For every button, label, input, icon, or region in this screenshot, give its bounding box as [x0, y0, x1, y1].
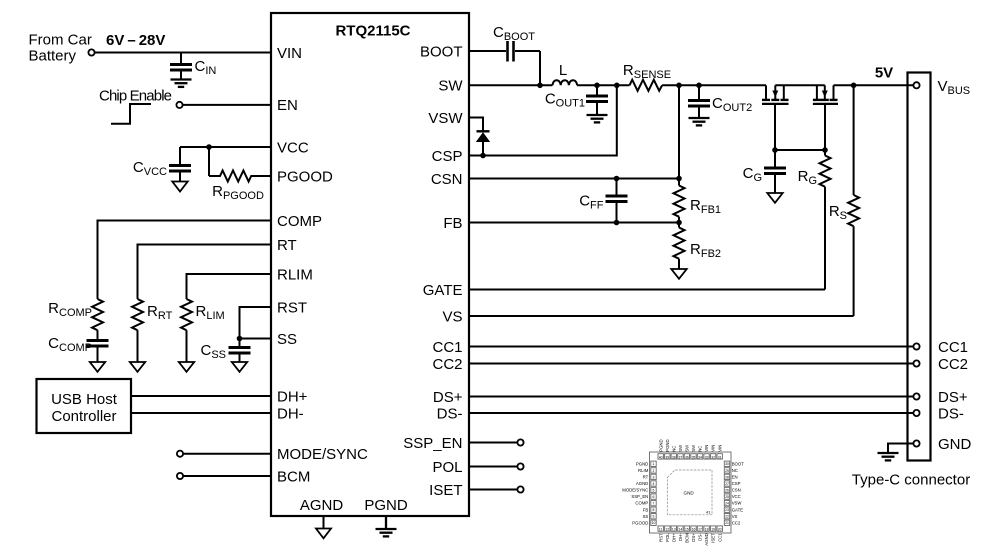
svg-text:VCC: VCC: [732, 494, 741, 499]
svg-text:CVCC: CVCC: [133, 159, 167, 178]
label RG: [798, 168, 817, 187]
svg-text:CSP: CSP: [732, 481, 741, 486]
svg-text:11: 11: [659, 528, 663, 532]
pin label FB: [443, 215, 462, 232]
svg-text:PGOOD: PGOOD: [632, 520, 648, 525]
wire MODE/SYNC: [183, 453, 271, 455]
node gate/RG junction: [822, 147, 828, 153]
node FB/RFB1/RFB2 junction: [676, 220, 682, 226]
terminal SSP_EN: [517, 439, 523, 445]
resistor RCOMP: [92, 299, 103, 330]
svg-text:SW: SW: [438, 78, 463, 95]
svg-text:6: 6: [653, 495, 655, 499]
label CCOMP: [48, 335, 92, 354]
diode D1: [476, 131, 490, 155]
svg-text:PGND: PGND: [658, 439, 663, 451]
QFN exposed pad: [667, 470, 712, 515]
QFN package outline: [650, 452, 732, 533]
svg-text:PGND: PGND: [636, 461, 648, 466]
svg-text:40: 40: [659, 456, 663, 460]
capacitor CIN: [170, 53, 192, 80]
wire GATE: [469, 289, 825, 291]
wire DH-: [131, 412, 271, 414]
svg-text:VS: VS: [442, 308, 462, 325]
capacitor CFF: [606, 179, 628, 223]
pin label CSN: [431, 171, 463, 188]
svg-text:POL: POL: [432, 459, 462, 476]
label RCOMP: [48, 300, 92, 319]
node SS/RST/CSS junction: [237, 336, 243, 342]
transistor Q2: [813, 85, 838, 150]
capacitor CVCC: [169, 147, 191, 182]
svg-text:BCM: BCM: [277, 468, 310, 485]
svg-text:16: 16: [692, 528, 696, 532]
pin label COMP: [277, 213, 322, 230]
ground (triangle) RFB2: [671, 269, 686, 279]
svg-text:25: 25: [725, 495, 729, 499]
svg-text:10: 10: [652, 521, 656, 525]
svg-text:From Car: From Car: [29, 32, 92, 49]
svg-text:31: 31: [718, 456, 722, 460]
svg-text:Controller: Controller: [51, 408, 116, 425]
terminal CC1: [913, 343, 919, 349]
svg-text:21: 21: [725, 521, 729, 525]
svg-text:GATE: GATE: [732, 507, 744, 512]
svg-text:CC1: CC1: [432, 339, 462, 356]
svg-text:RT: RT: [643, 475, 649, 480]
QFN pad pin 41: [706, 510, 711, 515]
svg-text:DS-: DS-: [938, 406, 964, 423]
ground (triangle) RRT: [130, 362, 145, 372]
svg-text:RS: RS: [829, 203, 847, 222]
QFN left pin numbers: [652, 462, 656, 525]
svg-text:GND: GND: [684, 491, 695, 496]
svg-text:41: 41: [706, 510, 711, 515]
svg-text:EN: EN: [732, 475, 738, 480]
svg-text:DH-: DH-: [678, 533, 683, 541]
QFN pad label GND: [684, 491, 695, 496]
svg-text:FB: FB: [443, 215, 462, 232]
svg-text:RG: RG: [798, 168, 817, 187]
label RFB2: [690, 241, 721, 260]
wire Q2 to VBUS: [834, 84, 914, 86]
ground (triangle) CCOMP: [90, 362, 105, 372]
svg-text:3: 3: [653, 475, 655, 479]
label: Chip Enable: [99, 88, 172, 105]
wire ISET: [469, 489, 517, 491]
label Type-C connector: [852, 472, 970, 489]
label CVCC: [133, 159, 167, 178]
svg-text:34: 34: [698, 456, 702, 460]
label connector DS+: [938, 389, 968, 406]
pin label CSP: [432, 148, 463, 165]
node VCC/RPGOOD junction: [206, 144, 212, 150]
terminal GND: [913, 440, 919, 446]
svg-text:SW: SW: [691, 444, 696, 452]
svg-text:BOOT: BOOT: [732, 461, 745, 466]
svg-text:VSW: VSW: [732, 501, 743, 506]
svg-text:20: 20: [718, 528, 722, 532]
svg-text:RRT: RRT: [147, 303, 173, 322]
svg-text:32: 32: [711, 456, 715, 460]
node CFF bottom junction: [614, 220, 620, 226]
svg-text:36: 36: [685, 456, 689, 460]
svg-text:CSS: CSS: [200, 342, 226, 361]
svg-text:RLIM: RLIM: [196, 303, 225, 322]
pin label SS: [277, 331, 297, 348]
wire DH+: [131, 395, 271, 397]
svg-text:MODE/SYNC: MODE/SYNC: [622, 488, 648, 493]
svg-text:CFF: CFF: [579, 193, 604, 212]
QFN right pin names: [732, 461, 745, 525]
terminal DS-: [913, 410, 919, 416]
svg-text:CC1: CC1: [717, 533, 722, 542]
svg-text:RFB1: RFB1: [690, 197, 721, 216]
label CBOOT: [493, 24, 535, 43]
svg-text:CSN: CSN: [732, 488, 741, 493]
pin label DS-: [437, 405, 463, 422]
svg-text:EN: EN: [277, 97, 298, 114]
svg-text:NC: NC: [698, 446, 703, 452]
pin label VCC: [277, 139, 309, 156]
QFN top pin names (rotated): [658, 439, 722, 451]
QFN-START: [622, 439, 744, 545]
QFN right pin boxes 30-21: [724, 461, 729, 525]
svg-text:AGND: AGND: [636, 481, 648, 486]
svg-text:12: 12: [665, 528, 669, 532]
wire SW to RSENSE: [577, 84, 629, 86]
svg-text:CBOOT: CBOOT: [493, 24, 535, 43]
node FB-divider riser junction: [676, 83, 682, 89]
svg-text:VSW: VSW: [428, 110, 463, 127]
svg-text:RPGOOD: RPGOOD: [212, 183, 264, 202]
wire SS: [240, 338, 272, 340]
IC U1 RTQ2115C body: [271, 13, 469, 516]
svg-text:VIN: VIN: [277, 45, 302, 62]
svg-text:VBUS: VBUS: [938, 78, 971, 97]
QFN top pin numbers: [659, 456, 722, 460]
pin label GATE: [423, 282, 463, 299]
label connector CC1: [938, 339, 968, 356]
pin label POL: [432, 459, 462, 476]
svg-text:SS: SS: [277, 331, 297, 348]
pin label VIN: [277, 45, 302, 62]
svg-text:MODE/SYNC: MODE/SYNC: [277, 446, 368, 463]
wire between Q1 and Q2: [775, 84, 825, 86]
wire DS-: [469, 412, 913, 414]
svg-text:6V – 28V: 6V – 28V: [106, 32, 165, 49]
label RS: [829, 203, 847, 222]
node COUT1 junction: [594, 83, 600, 89]
node BOOT/SW junction: [537, 83, 543, 89]
svg-text:DS+: DS+: [433, 389, 463, 406]
svg-text:CSN: CSN: [431, 171, 463, 188]
svg-text:22: 22: [725, 515, 729, 519]
svg-text:NC: NC: [671, 446, 676, 452]
node RS top junction: [851, 83, 857, 89]
svg-text:ISET: ISET: [711, 533, 716, 543]
label: From Car Battery: [29, 32, 92, 65]
label: 6V - 28V input voltage: [106, 32, 165, 49]
svg-text:13: 13: [672, 528, 676, 532]
svg-text:14: 14: [679, 528, 683, 532]
svg-text:AGND: AGND: [300, 497, 344, 514]
label RRT: [147, 303, 173, 322]
node CSP riser junction: [614, 83, 620, 89]
svg-text:BCM: BCM: [685, 533, 690, 543]
wire COMP: [98, 221, 272, 300]
pin label AGND: [300, 497, 344, 514]
resistor RFB1: [674, 179, 685, 223]
svg-text:CC2: CC2: [432, 356, 462, 373]
pin label PGOOD: [277, 168, 333, 185]
wire RLIM: [187, 274, 272, 299]
wire POL: [469, 466, 517, 468]
svg-text:NC: NC: [732, 468, 738, 473]
QFN left pin boxes 1-10: [651, 461, 656, 525]
svg-text:RFB2: RFB2: [690, 241, 721, 260]
resistor RPGOOD: [209, 147, 271, 182]
node COUT2 junction: [696, 83, 702, 89]
svg-text:28: 28: [725, 475, 729, 479]
wire CC2: [469, 363, 913, 365]
capacitor CSS: [229, 339, 251, 363]
svg-text:VS: VS: [732, 514, 738, 519]
label CG: [743, 165, 762, 184]
svg-text:RTQ2115C: RTQ2115C: [335, 23, 410, 40]
terminal ISET: [517, 486, 523, 492]
svg-text:COMP: COMP: [277, 213, 322, 230]
wire SSP_EN: [469, 442, 517, 444]
svg-text:CC1: CC1: [938, 339, 968, 356]
label USB Host Controller: [51, 391, 118, 425]
QFN top pin boxes 40-31: [658, 454, 722, 459]
wire FB-divider riser: [678, 85, 680, 178]
ground (earth) CIN: [171, 80, 192, 87]
USB host controller box: [37, 379, 132, 433]
svg-text:VIN: VIN: [717, 445, 722, 452]
pin label PGND: [364, 497, 408, 514]
pin label BCM: [277, 468, 310, 485]
label CIN: [195, 58, 217, 77]
svg-text:Battery: Battery: [29, 48, 77, 65]
resistor RFB2: [674, 223, 685, 270]
resistor RG: [820, 150, 831, 290]
svg-text:COMP: COMP: [635, 501, 648, 506]
pin label EN: [277, 97, 298, 114]
resistor RRT: [132, 299, 143, 362]
pin label RLIM: [277, 266, 313, 283]
svg-text:17: 17: [698, 528, 702, 532]
svg-text:18: 18: [705, 528, 709, 532]
svg-text:DS-: DS-: [698, 533, 703, 541]
svg-text:4: 4: [653, 482, 655, 486]
label CSS: [200, 342, 226, 361]
svg-text:FB: FB: [643, 507, 649, 512]
svg-text:26: 26: [725, 488, 729, 492]
svg-text:SSP_EN: SSP_EN: [631, 494, 648, 499]
capacitor CG: [764, 150, 786, 193]
svg-text:24: 24: [725, 502, 729, 506]
resistor RS: [848, 85, 859, 316]
terminal BCM: [177, 473, 183, 479]
QFN left pin names: [622, 461, 648, 525]
svg-text:DH-: DH-: [277, 405, 304, 422]
chip-enable step waveform symbol: [111, 104, 151, 124]
pin label DS+: [433, 389, 463, 406]
svg-text:SW: SW: [685, 444, 690, 452]
resistor RSENSE: [630, 80, 663, 91]
svg-text:RST: RST: [658, 533, 663, 542]
pin label RST: [277, 299, 307, 316]
svg-text:39: 39: [665, 456, 669, 460]
svg-text:RSENSE: RSENSE: [623, 62, 671, 81]
svg-text:Type-C connector: Type-C connector: [852, 472, 970, 489]
svg-text:38: 38: [672, 456, 676, 460]
svg-text:PGND: PGND: [665, 439, 670, 451]
terminal MODE/SYNC: [177, 451, 183, 457]
transistor Q1: [762, 85, 789, 150]
QFN right pin numbers: [725, 462, 729, 525]
pin label ISET: [429, 482, 462, 499]
wire SW: [469, 84, 553, 86]
wire RT: [138, 245, 272, 300]
svg-text:SSP_EN: SSP_EN: [403, 435, 462, 452]
svg-text:RLIM: RLIM: [638, 468, 649, 473]
svg-text:RST: RST: [277, 299, 307, 316]
wire FB: [469, 222, 679, 224]
wire BOOT: [469, 51, 540, 85]
ground (triangle) CG: [767, 193, 782, 203]
svg-text:DS+: DS+: [938, 389, 968, 406]
svg-text:SW: SW: [678, 444, 683, 452]
svg-text:29: 29: [725, 469, 729, 473]
terminal CC2: [913, 360, 919, 366]
terminal VBUS: [913, 82, 919, 88]
svg-text:CIN: CIN: [195, 58, 217, 77]
ground (triangle) CSS: [232, 362, 247, 372]
svg-text:AGND: AGND: [704, 533, 709, 545]
svg-text:DH+: DH+: [277, 388, 308, 405]
svg-text:15: 15: [685, 528, 689, 532]
svg-text:2: 2: [653, 469, 655, 473]
node CFF top junction: [614, 176, 620, 182]
pin label MODE/SYNC: [277, 446, 368, 463]
svg-text:5: 5: [653, 488, 655, 492]
ground (earth) connector GND: [878, 453, 899, 460]
pin label VS: [442, 308, 462, 325]
ground (triangle) CVCC: [172, 182, 187, 192]
svg-text:VIN: VIN: [711, 445, 716, 452]
node CSN/RFB1 junction: [676, 176, 682, 182]
svg-text:L: L: [559, 62, 567, 79]
label RTQ2115C: [335, 23, 410, 40]
svg-text:27: 27: [725, 482, 729, 486]
wire VS: [469, 315, 854, 317]
pin label DH-: [277, 405, 304, 422]
pin label CC1: [432, 339, 462, 356]
ground (earth) COUT1: [587, 115, 608, 122]
pin label SW: [438, 78, 463, 95]
capacitor COUT1: [586, 85, 608, 114]
label VBUS: [938, 78, 971, 97]
svg-text:ISET: ISET: [429, 482, 462, 499]
wire CSN: [469, 178, 679, 180]
label COUT2: [712, 95, 752, 114]
svg-text:1: 1: [653, 462, 655, 466]
svg-text:37: 37: [679, 456, 683, 460]
pin label BOOT: [420, 43, 463, 60]
ground (triangle) RLIM: [179, 362, 194, 372]
label connector CC2: [938, 356, 968, 373]
capacitor CBOOT: [508, 41, 514, 62]
svg-text:RLIM: RLIM: [277, 266, 313, 283]
wire CC1: [469, 346, 913, 348]
label connector DS-: [938, 406, 964, 423]
capacitor CCOMP: [87, 330, 109, 362]
svg-text:CSP: CSP: [432, 148, 463, 165]
terminal: battery input: [88, 49, 94, 55]
svg-text:9: 9: [653, 515, 655, 519]
ground (earth) PGND: [376, 516, 397, 536]
svg-text:DS+: DS+: [691, 533, 696, 542]
wire VSW: [469, 118, 483, 132]
label 5V: [875, 65, 893, 82]
label CFF: [579, 193, 604, 212]
svg-text:COUT2: COUT2: [712, 95, 752, 114]
wire VCC: [180, 146, 271, 148]
svg-text:30: 30: [725, 462, 729, 466]
svg-text:CCOMP: CCOMP: [48, 335, 92, 354]
svg-text:CC2: CC2: [938, 356, 968, 373]
wire EN: [183, 104, 271, 106]
wire GND: [888, 444, 913, 453]
svg-text:VIN: VIN: [704, 445, 709, 452]
svg-text:19: 19: [711, 528, 715, 532]
svg-text:8: 8: [653, 508, 655, 512]
svg-text:DH+: DH+: [671, 533, 676, 542]
pin label VSW: [428, 110, 463, 127]
svg-text:CC2: CC2: [732, 520, 741, 525]
wire DS+: [469, 396, 913, 398]
svg-text:RCOMP: RCOMP: [48, 300, 92, 319]
wire RSENSE to Q1: [662, 84, 766, 86]
pin label CC2: [432, 356, 462, 373]
svg-text:COUT1: COUT1: [545, 91, 585, 110]
wire VIN: [95, 52, 271, 54]
svg-text:7: 7: [653, 502, 655, 506]
QFN bottom pin names (rotated): [658, 533, 722, 546]
inductor L: [553, 80, 578, 85]
svg-text:POL: POL: [665, 533, 670, 542]
wire RST: [240, 307, 272, 339]
label RPGOOD: [212, 183, 264, 202]
capacitor COUT2: [688, 85, 710, 117]
svg-text:BOOT: BOOT: [420, 43, 463, 60]
pin label DH+: [277, 388, 308, 405]
terminal EN: [176, 102, 182, 108]
svg-text:PGOOD: PGOOD: [277, 168, 333, 185]
Type-C connector body: [908, 73, 931, 461]
label RSENSE: [623, 62, 671, 81]
svg-text:USB Host: USB Host: [51, 391, 118, 408]
svg-text:33: 33: [705, 456, 709, 460]
node diode/CSP junction: [480, 153, 486, 159]
pin label RT: [277, 237, 297, 254]
QFN bottom pin numbers: [659, 528, 722, 532]
terminal DS+: [913, 393, 919, 399]
label L: [559, 62, 567, 79]
